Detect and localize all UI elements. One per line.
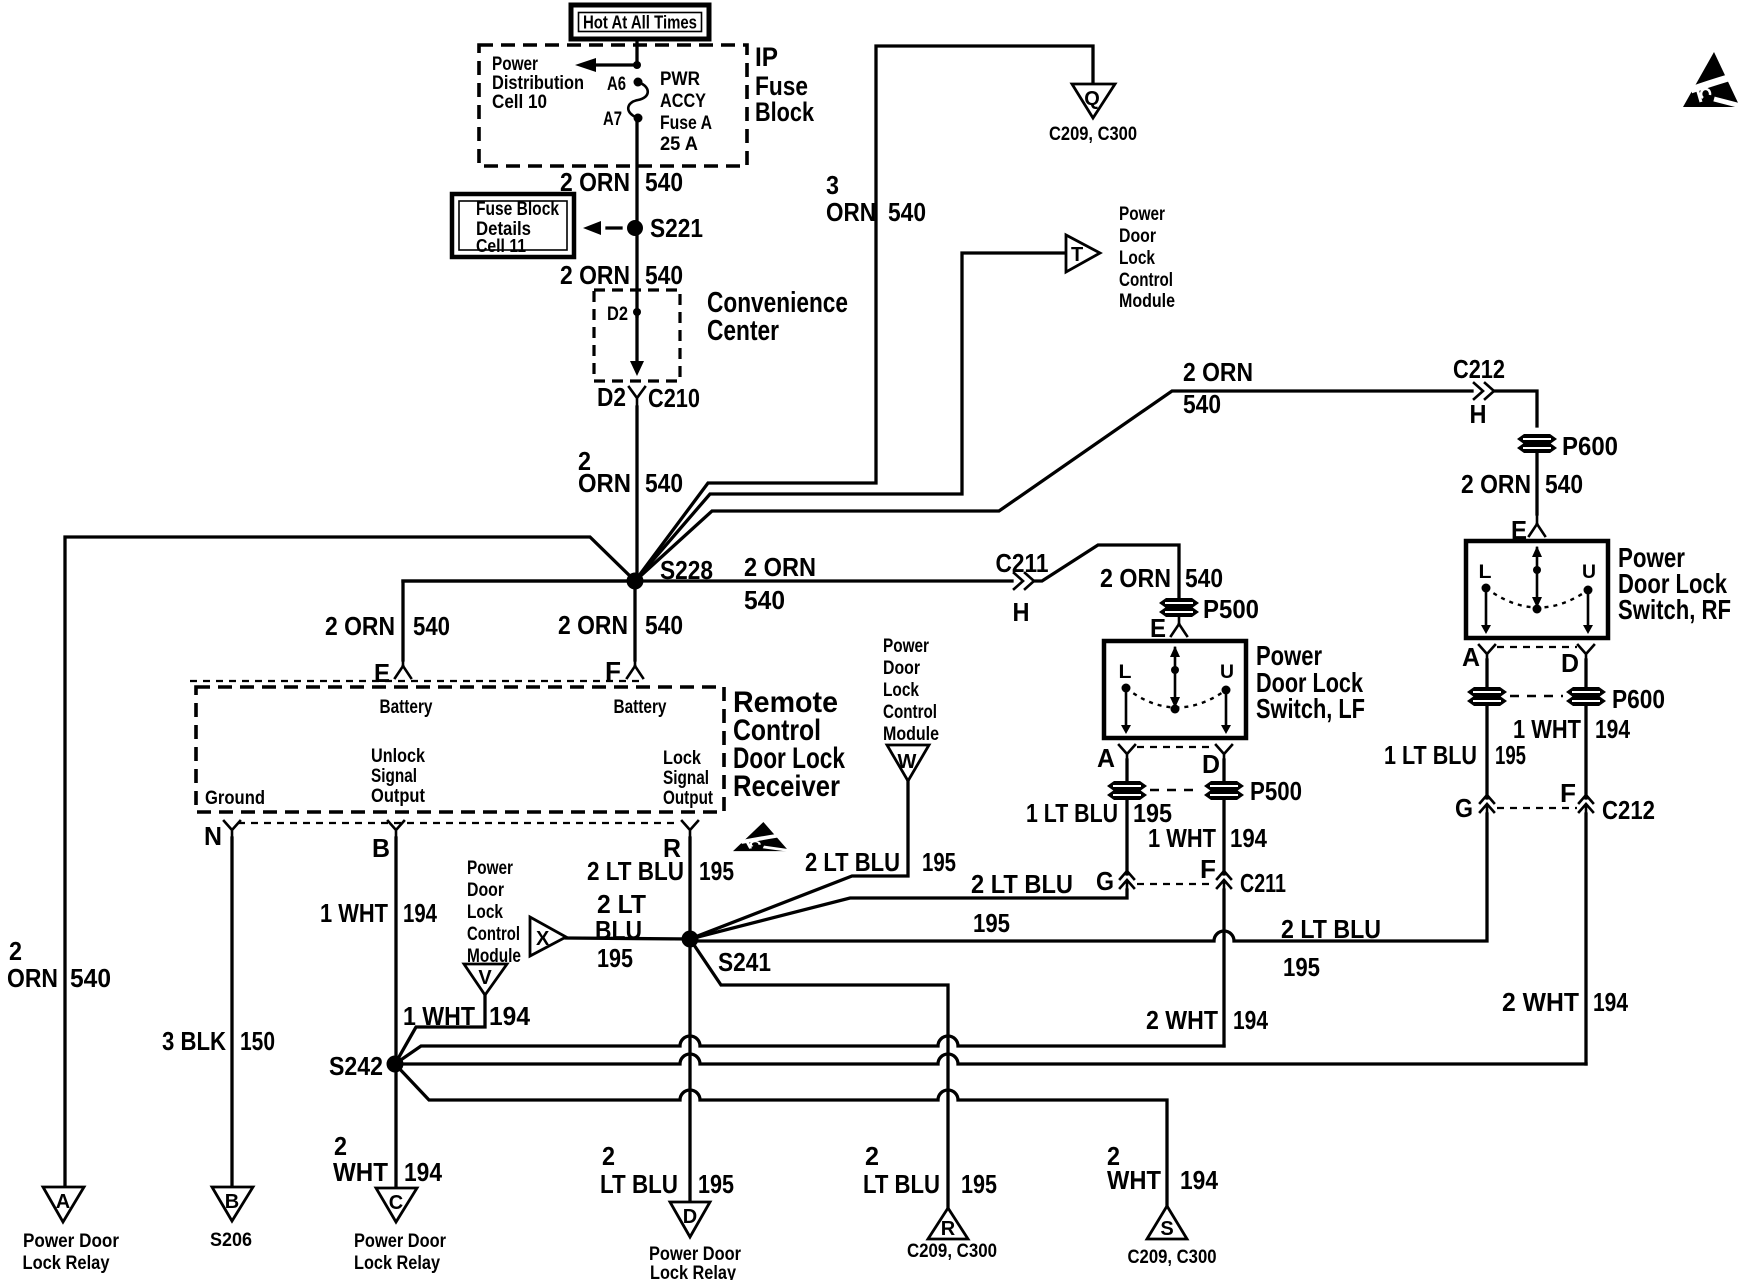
wire: P600 down to RF switch pin E bbox=[1535, 453, 1538, 514]
arrow from S221 to Fuse Block Details bbox=[583, 221, 621, 235]
svg-text:E: E bbox=[1150, 613, 1166, 643]
svg-text:V: V bbox=[478, 967, 492, 989]
label Power Door Lock Control Module (X) bbox=[467, 858, 521, 967]
svg-text:C212: C212 bbox=[1602, 795, 1655, 825]
connector V (power door lock control module) bbox=[464, 964, 507, 995]
RF switch internals bbox=[1479, 546, 1597, 634]
label 2 LT BLU 195 (C211 G wire) bbox=[971, 869, 1073, 938]
label 1 WHT 194 bbox=[1513, 714, 1630, 744]
svg-text:194: 194 bbox=[403, 898, 437, 928]
svg-text:2 ORN: 2 ORN bbox=[1461, 469, 1531, 499]
label Power Door Lock Control Module (W) bbox=[883, 636, 939, 745]
svg-text:ORN: ORN bbox=[578, 468, 631, 498]
svg-text:Block: Block bbox=[755, 97, 815, 127]
svg-text:540: 540 bbox=[645, 610, 683, 640]
grommet P500 bbox=[1159, 594, 1259, 624]
svg-text:Receiver: Receiver bbox=[733, 770, 840, 803]
svg-text:Ground: Ground bbox=[205, 788, 265, 809]
wire: W down to S241 (2 LT BLU 195) bbox=[690, 781, 908, 939]
wires A/D of RF down to P600 bbox=[1487, 660, 1586, 687]
wire: C212 G down-left to S241 (2 LT BLU 195) bbox=[690, 814, 1487, 941]
svg-text:P600: P600 bbox=[1562, 431, 1618, 461]
svg-text:540: 540 bbox=[70, 963, 111, 993]
svg-text:A7: A7 bbox=[603, 109, 622, 130]
svg-text:T: T bbox=[1071, 244, 1083, 266]
svg-text:D: D bbox=[1202, 749, 1220, 779]
svg-text:1 LT BLU: 1 LT BLU bbox=[1026, 798, 1118, 828]
splice S242 bbox=[329, 1051, 404, 1081]
svg-text:Power Door: Power Door bbox=[649, 1244, 742, 1265]
svg-text:S242: S242 bbox=[329, 1051, 383, 1081]
svg-text:Power: Power bbox=[883, 636, 929, 657]
label 2 ORN 540 (E wire) bbox=[325, 611, 450, 641]
wire: receiver R down through S241 to relay D bbox=[688, 838, 691, 1202]
svg-text:195: 195 bbox=[699, 856, 734, 886]
svg-text:540: 540 bbox=[888, 197, 926, 227]
svg-text:2 LT BLU: 2 LT BLU bbox=[971, 869, 1073, 899]
Convenience Center dashed box bbox=[594, 290, 680, 381]
connector R triangle bbox=[907, 1208, 997, 1262]
svg-text:Center: Center bbox=[707, 315, 779, 347]
svg-text:Signal: Signal bbox=[663, 768, 709, 789]
wire: receiver N down to S206 (3 BLK 150) bbox=[230, 838, 233, 1187]
connector X (power door lock control module) bbox=[530, 917, 566, 956]
wire: S228 long left branch down to relay A bbox=[65, 537, 635, 1187]
svg-text:2 ORN: 2 ORN bbox=[744, 552, 816, 582]
splice S221 bbox=[627, 213, 703, 243]
svg-text:U: U bbox=[1582, 562, 1596, 583]
wire: receiver B down through S242 to relay C bbox=[394, 838, 397, 1188]
svg-text:2: 2 bbox=[602, 1141, 615, 1171]
wire: S241 down-right to connector R (2 LT BLU 195) bbox=[690, 939, 948, 1208]
svg-text:D: D bbox=[683, 1206, 697, 1228]
svg-text:Power: Power bbox=[492, 54, 538, 75]
Remote Control Door Lock Receiver dashed box bbox=[196, 687, 724, 812]
wire: S228 to C212 (2 ORN 540) bbox=[635, 391, 1472, 581]
svg-text:194: 194 bbox=[1180, 1165, 1218, 1195]
svg-text:2 ORN: 2 ORN bbox=[560, 260, 630, 290]
svg-text:1 WHT: 1 WHT bbox=[403, 1001, 475, 1031]
svg-text:ACCY: ACCY bbox=[660, 91, 706, 112]
pin N of receiver bbox=[204, 821, 240, 851]
label 2 ORN 540 bbox=[1461, 469, 1583, 499]
label: Power Distribution Cell 10 bbox=[492, 54, 584, 113]
svg-text:ORN: ORN bbox=[7, 963, 58, 993]
svg-text:3: 3 bbox=[826, 170, 839, 200]
svg-text:540: 540 bbox=[1545, 469, 1583, 499]
wire with arrow inside convenience center bbox=[630, 316, 644, 376]
splice S241 bbox=[682, 931, 772, 978]
label 2 ORN 540 (F wire) bbox=[558, 610, 683, 640]
svg-text:540: 540 bbox=[744, 585, 785, 615]
svg-text:Hot At All Times: Hot At All Times bbox=[583, 13, 697, 33]
svg-text:2 WHT: 2 WHT bbox=[1502, 987, 1579, 1017]
svg-text:A: A bbox=[1462, 642, 1480, 672]
connector B triangle bbox=[210, 1187, 253, 1251]
label 2 WHT 194 (S triangle wire) bbox=[1107, 1141, 1218, 1195]
svg-text:540: 540 bbox=[645, 260, 683, 290]
svg-text:Door: Door bbox=[1119, 226, 1157, 247]
label 2 ORN 540 bbox=[578, 446, 683, 498]
svg-text:A: A bbox=[56, 1191, 70, 1213]
wires P500 down to C211 G/F bbox=[1127, 800, 1224, 874]
svg-text:Lock Relay: Lock Relay bbox=[354, 1253, 440, 1274]
svg-text:Power Door: Power Door bbox=[354, 1231, 447, 1252]
svg-text:1 WHT: 1 WHT bbox=[1148, 823, 1216, 853]
svg-text:Door: Door bbox=[467, 880, 505, 901]
svg-text:S221: S221 bbox=[650, 213, 703, 243]
label 2 ORN 540 right of S228 bbox=[744, 552, 816, 615]
svg-text:P600: P600 bbox=[1612, 684, 1665, 714]
svg-text:D2: D2 bbox=[607, 304, 628, 325]
pins A and D of RF switch bbox=[1462, 642, 1594, 678]
svg-text:S206: S206 bbox=[210, 1230, 252, 1251]
svg-text:Fuse Block: Fuse Block bbox=[476, 199, 559, 220]
svg-text:195: 195 bbox=[922, 847, 956, 877]
connector W (power door lock control module) bbox=[887, 745, 929, 781]
wire: S242 branch to C212 F (with hops) bbox=[395, 1054, 1586, 1064]
svg-text:195: 195 bbox=[1283, 952, 1320, 982]
svg-text:540: 540 bbox=[1183, 389, 1221, 419]
svg-text:Cell 11: Cell 11 bbox=[476, 236, 526, 256]
svg-text:Control: Control bbox=[1119, 270, 1173, 291]
connector A triangle bbox=[23, 1187, 120, 1274]
Power Door Lock Switch RF box bbox=[1466, 541, 1608, 638]
svg-text:2 LT BLU: 2 LT BLU bbox=[805, 847, 900, 877]
label Power Door Lock Switch RF bbox=[1618, 542, 1731, 625]
svg-text:195: 195 bbox=[597, 943, 633, 973]
svg-text:A6: A6 bbox=[607, 74, 626, 95]
label 1 WHT 194 (B wire) bbox=[320, 898, 437, 928]
wire: C212 F down to S242 branch (2 WHT 194) bbox=[1584, 814, 1587, 1064]
pin E of RF switch bbox=[1511, 514, 1545, 545]
svg-text:W: W bbox=[898, 751, 917, 773]
svg-text:Q: Q bbox=[1084, 88, 1100, 110]
svg-text:L: L bbox=[1479, 562, 1492, 583]
label 2 LT BLU 195 bbox=[1281, 914, 1381, 982]
svg-text:2 LT BLU: 2 LT BLU bbox=[1281, 914, 1381, 944]
svg-text:194: 194 bbox=[1233, 1005, 1268, 1035]
svg-text:Cell 10: Cell 10 bbox=[492, 92, 547, 113]
wire: S228 to T (power door lock control module) bbox=[635, 253, 1064, 581]
svg-text:Module: Module bbox=[1119, 291, 1175, 312]
svg-text:Power: Power bbox=[1119, 204, 1165, 225]
svg-text:X: X bbox=[536, 928, 550, 950]
svg-text:C210: C210 bbox=[648, 383, 700, 413]
fuse A: PWR ACCY Fuse A 25A between pins A6/A7 bbox=[603, 69, 712, 155]
label 2 WHT 194 bbox=[1502, 987, 1628, 1017]
label Remote Control Door Lock Receiver bbox=[733, 686, 845, 803]
svg-text:C211: C211 bbox=[996, 548, 1049, 578]
svg-text:E: E bbox=[374, 658, 390, 688]
wire: S228 to connector Q (3 ORN 540) bbox=[635, 46, 1093, 581]
label 1 WHT 194 (V wire) bbox=[403, 1001, 531, 1031]
connector C triangle bbox=[354, 1188, 447, 1274]
svg-text:1 WHT: 1 WHT bbox=[320, 898, 388, 928]
wire: C211 H to P500 bbox=[1034, 545, 1179, 598]
connector Q bbox=[1049, 84, 1137, 145]
svg-text:F: F bbox=[1200, 854, 1216, 884]
svg-text:D: D bbox=[1561, 648, 1579, 678]
wire: fuse A7 down to S221 bbox=[635, 118, 638, 228]
connector C211 pins G/F bbox=[1096, 854, 1286, 898]
label 3 ORN 540 bbox=[826, 170, 926, 227]
wire: C211 G down-left to S241 bbox=[690, 890, 1127, 939]
svg-text:Lock: Lock bbox=[1119, 248, 1155, 269]
svg-text:LT BLU: LT BLU bbox=[600, 1169, 678, 1199]
svg-text:IP: IP bbox=[755, 42, 778, 72]
IP Fuse Block dashed box bbox=[479, 45, 747, 166]
connector T bbox=[1066, 235, 1100, 272]
label Convenience Center bbox=[707, 287, 848, 347]
ESD symbol beside receiver bbox=[733, 822, 790, 851]
svg-text:2 ORN: 2 ORN bbox=[1183, 357, 1253, 387]
label 2 LT BLU 195 (R wire) bbox=[587, 856, 734, 886]
wire: S228 left then down to receiver pin E bbox=[403, 581, 635, 660]
label 1 WHT 194 bbox=[1148, 823, 1267, 853]
svg-text:194: 194 bbox=[489, 1001, 531, 1031]
fine dashed connector line across receiver top bbox=[190, 680, 643, 682]
svg-text:U: U bbox=[1220, 662, 1234, 683]
LF switch internals bbox=[1119, 646, 1235, 734]
label Power Door Lock Control Module (T) bbox=[1119, 204, 1175, 312]
svg-text:Lock: Lock bbox=[467, 902, 503, 923]
svg-text:Battery: Battery bbox=[614, 697, 667, 718]
grommet pair P600 bbox=[1467, 684, 1665, 714]
svg-text:C209, C300: C209, C300 bbox=[1049, 124, 1137, 145]
ESD symbol top right bbox=[1683, 52, 1741, 107]
svg-text:2 WHT: 2 WHT bbox=[1146, 1005, 1218, 1035]
wire: S242 branch to connector S (with hops) bbox=[395, 1064, 1167, 1206]
in-line connector C212 pin H bbox=[1453, 354, 1505, 429]
pin D2 of convenience center bbox=[607, 304, 641, 325]
label 1 LT BLU 195 bbox=[1384, 740, 1526, 770]
pin E of LF switch bbox=[1150, 613, 1187, 643]
pin E of receiver bbox=[374, 658, 411, 688]
wire: S228 down to receiver pin F bbox=[633, 589, 636, 660]
svg-text:P500: P500 bbox=[1250, 776, 1302, 806]
svg-text:1 LT BLU: 1 LT BLU bbox=[1384, 740, 1477, 770]
grommet pair P500 bbox=[1107, 776, 1302, 806]
label 2 ORN 540 bbox=[1183, 357, 1253, 419]
wires A/D of LF down to P500 bbox=[1127, 760, 1224, 781]
grommet P600 bbox=[1517, 431, 1618, 461]
connector D triangle bbox=[649, 1202, 742, 1284]
svg-text:B: B bbox=[225, 1191, 239, 1213]
svg-text:Power: Power bbox=[467, 858, 513, 879]
wire: V to S242 (1 WHT 194) bbox=[395, 995, 485, 1064]
svg-text:194: 194 bbox=[1593, 987, 1628, 1017]
svg-text:Output: Output bbox=[663, 788, 714, 809]
svg-text:Switch, LF: Switch, LF bbox=[1256, 693, 1365, 724]
svg-text:540: 540 bbox=[645, 167, 683, 197]
Hot At All Times label box bbox=[571, 5, 709, 39]
svg-text:194: 194 bbox=[1230, 823, 1267, 853]
svg-text:B: B bbox=[372, 833, 390, 863]
svg-text:25 A: 25 A bbox=[660, 134, 698, 155]
svg-text:R: R bbox=[941, 1218, 956, 1240]
svg-text:PWR: PWR bbox=[660, 69, 700, 90]
svg-text:195: 195 bbox=[698, 1169, 734, 1199]
svg-text:2 ORN: 2 ORN bbox=[1100, 563, 1171, 593]
fine dashed connector line across receiver bottom bbox=[238, 822, 678, 824]
svg-text:Lock: Lock bbox=[883, 680, 919, 701]
label 2 WHT 194 bbox=[1146, 1005, 1268, 1035]
svg-text:2: 2 bbox=[865, 1141, 879, 1171]
svg-text:Switch, RF: Switch, RF bbox=[1618, 594, 1731, 625]
svg-text:WHT: WHT bbox=[333, 1157, 388, 1187]
svg-text:ORN: ORN bbox=[826, 197, 876, 227]
svg-text:C212: C212 bbox=[1453, 354, 1505, 384]
svg-text:Lock: Lock bbox=[663, 748, 701, 769]
svg-text:540: 540 bbox=[413, 611, 450, 641]
wire: S228 right to C211 H bbox=[403, 579, 1012, 582]
label 2 LT BLU 195 (R triangle wire) bbox=[863, 1141, 997, 1199]
wire: C211 F down to S242 branch (2 WHT 194) bbox=[1222, 890, 1225, 1046]
in-line connector C211 pin H bbox=[996, 548, 1049, 627]
svg-text:194: 194 bbox=[404, 1157, 442, 1187]
wire: battery feed into IP fuse block bbox=[635, 39, 638, 65]
wire: S221 down into Convenience Center bbox=[635, 236, 638, 316]
svg-text:195: 195 bbox=[1495, 740, 1526, 770]
Fuse Block Details Cell 11 box bbox=[452, 194, 574, 257]
svg-text:D2: D2 bbox=[597, 382, 626, 412]
pins A and D of LF switch bbox=[1097, 743, 1232, 779]
svg-text:LT BLU: LT BLU bbox=[863, 1169, 940, 1199]
label 1 LT BLU 195 bbox=[1026, 798, 1172, 828]
svg-text:Lock Relay: Lock Relay bbox=[23, 1253, 110, 1274]
svg-text:H: H bbox=[1013, 597, 1030, 627]
svg-text:L: L bbox=[1119, 662, 1132, 683]
svg-text:2: 2 bbox=[9, 936, 22, 966]
svg-text:2 ORN: 2 ORN bbox=[325, 611, 395, 641]
wire: S242 branch to C211 F (with hops) bbox=[395, 1036, 1224, 1064]
connector C210 pin D2 bbox=[597, 382, 700, 413]
svg-text:G: G bbox=[1455, 793, 1473, 823]
svg-text:540: 540 bbox=[645, 468, 683, 498]
svg-text:2 LT BLU: 2 LT BLU bbox=[587, 856, 684, 886]
label 2 LT BLU 195 (W wire) bbox=[805, 847, 956, 877]
svg-text:C209, C300: C209, C300 bbox=[907, 1241, 997, 1262]
connector S triangle bbox=[1128, 1206, 1217, 1268]
receiver internal labels bbox=[205, 697, 714, 809]
svg-text:H: H bbox=[1470, 399, 1487, 429]
label 2 ORN 540 bbox=[560, 167, 683, 197]
label Power Door Lock Switch LF bbox=[1256, 640, 1365, 724]
svg-text:G: G bbox=[1096, 866, 1114, 896]
svg-text:Control: Control bbox=[467, 924, 520, 945]
svg-text:150: 150 bbox=[240, 1026, 275, 1056]
svg-text:A: A bbox=[1097, 743, 1115, 773]
svg-text:S241: S241 bbox=[718, 947, 771, 977]
svg-text:2 ORN: 2 ORN bbox=[558, 610, 628, 640]
svg-text:Signal: Signal bbox=[371, 766, 417, 787]
svg-text:195: 195 bbox=[973, 908, 1010, 938]
svg-text:Power Door: Power Door bbox=[23, 1231, 120, 1252]
svg-text:3 BLK: 3 BLK bbox=[162, 1026, 226, 1056]
label 2 ORN 540 bbox=[1100, 563, 1223, 593]
svg-text:Distribution: Distribution bbox=[492, 73, 584, 94]
svg-text:F: F bbox=[1560, 778, 1576, 808]
label: IP Fuse Block bbox=[755, 42, 815, 127]
svg-text:S: S bbox=[1160, 1218, 1173, 1240]
svg-text:540: 540 bbox=[1185, 563, 1223, 593]
svg-text:Lock Relay: Lock Relay bbox=[650, 1263, 736, 1280]
svg-text:C209, C300: C209, C300 bbox=[1128, 1247, 1217, 1268]
svg-text:Unlock: Unlock bbox=[371, 746, 425, 767]
wire: C210 down to S228 bbox=[635, 407, 638, 581]
wire: C212 H to P600 bbox=[1494, 391, 1537, 426]
wire: X to S241 bbox=[566, 938, 690, 939]
svg-text:N: N bbox=[204, 821, 222, 851]
svg-text:P500: P500 bbox=[1203, 594, 1259, 624]
svg-text:Control: Control bbox=[883, 702, 937, 723]
connector C212 pins G/F bbox=[1455, 778, 1655, 825]
pin F of receiver bbox=[605, 656, 643, 686]
label 2 ORN 540 (left branch) bbox=[7, 936, 111, 993]
label 2 WHT 194 (C wire) bbox=[333, 1131, 442, 1187]
svg-text:C: C bbox=[389, 1192, 403, 1214]
svg-text:Door: Door bbox=[883, 658, 921, 679]
svg-text:Battery: Battery bbox=[380, 697, 433, 718]
svg-text:Fuse A: Fuse A bbox=[660, 113, 712, 134]
arrow to Power Distribution bbox=[575, 58, 641, 72]
svg-text:Output: Output bbox=[371, 786, 426, 807]
label 2 LT BLU 195 (D wire) bbox=[600, 1141, 734, 1199]
svg-text:Module: Module bbox=[883, 724, 939, 745]
svg-text:194: 194 bbox=[1595, 714, 1630, 744]
label 3 BLK 150 bbox=[162, 1026, 275, 1056]
svg-text:BLU: BLU bbox=[595, 915, 642, 945]
pin R of receiver bbox=[663, 821, 698, 863]
splice S228 bbox=[627, 555, 714, 590]
Power Door Lock Switch LF box bbox=[1104, 641, 1246, 738]
svg-text:195: 195 bbox=[961, 1169, 997, 1199]
pin B of receiver bbox=[372, 821, 404, 863]
label 2 LT BLU 195 (X wire) bbox=[595, 889, 646, 973]
svg-text:WHT: WHT bbox=[1107, 1165, 1161, 1195]
svg-text:C211: C211 bbox=[1240, 868, 1286, 898]
wires P600 down to C212 G/F bbox=[1487, 706, 1586, 798]
label 2 ORN 540 bbox=[560, 260, 683, 290]
